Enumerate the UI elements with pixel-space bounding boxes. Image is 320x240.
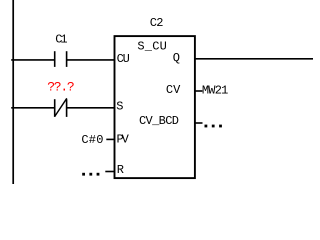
svg-text:PV: PV	[117, 132, 130, 146]
svg-text:S_CU: S_CU	[137, 39, 166, 53]
svg-text:C#0: C#0	[81, 133, 103, 147]
wire ... to R input	[105, 171, 115, 173]
svg-text:C1: C1	[55, 33, 67, 47]
label ... (CV_BCD operand)	[205, 125, 222, 128]
svg-text:CV_BCD: CV_BCD	[139, 114, 179, 128]
left power rail	[12, 0, 14, 184]
label ... (R operand)	[82, 173, 99, 176]
svg-text:MW21: MW21	[202, 84, 228, 98]
contact ??.? (normally closed)	[55, 98, 67, 117]
svg-text:R: R	[117, 163, 124, 177]
svg-text:C2: C2	[150, 16, 164, 30]
wire NC contact to S input	[67, 107, 115, 109]
wire CV output	[195, 90, 203, 92]
svg-text:Q: Q	[173, 51, 180, 65]
contact C1 (normally open)	[55, 51, 67, 67]
wire rail to NC contact	[11, 107, 55, 109]
svg-text:S: S	[116, 100, 123, 114]
wire rail to contact C1	[11, 59, 55, 61]
wire CV_BCD output	[195, 122, 203, 124]
wire Q output	[195, 58, 313, 60]
svg-text:CV: CV	[166, 83, 181, 97]
wire contact C1 to CU input	[67, 59, 115, 61]
counter block C2 (S_CU) box	[115, 36, 195, 178]
svg-text:??.?: ??.?	[47, 79, 74, 94]
svg-text:CU: CU	[117, 52, 130, 66]
wire C#0 to PV input	[106, 138, 115, 140]
